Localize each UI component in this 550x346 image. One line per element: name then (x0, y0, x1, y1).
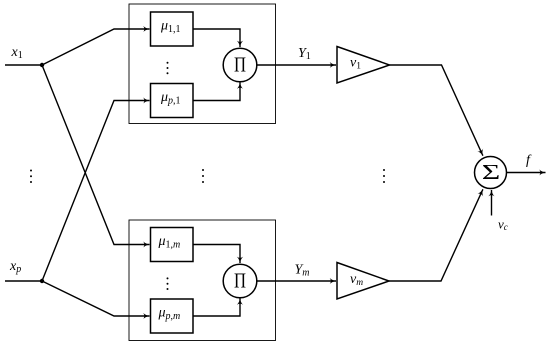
svg-text:Σ: Σ (482, 160, 501, 184)
amplifier vm (337, 263, 389, 300)
product node PI m (223, 264, 257, 298)
svg-text:xp: xp (9, 259, 21, 275)
vdots between rule blocks (202, 169, 204, 183)
svg-text:Π: Π (234, 269, 246, 293)
vdots between amplifiers (383, 169, 385, 183)
wire vm to summation (389, 189, 483, 281)
svg-text:Π: Π (234, 53, 246, 77)
fuzzifier layer box 1 (top rule block) (129, 4, 276, 124)
membership box mu_1,1 (151, 12, 194, 46)
membership box mu_1,m (151, 228, 194, 262)
svg-text:μ1,m: μ1,m (158, 234, 181, 251)
wire x1 to mu_1,m (crossing) (42, 65, 150, 245)
wire mu_1,m to product node m (193, 245, 240, 264)
product node PI 1 (223, 48, 257, 82)
wire v1 to summation (390, 65, 483, 156)
svg-text:Ym: Ym (295, 263, 310, 279)
svg-text:μp,m: μp,m (158, 306, 181, 323)
wire mu_p,1 to product node 1 (193, 83, 240, 101)
svg-text:μ1,1: μ1,1 (160, 19, 181, 36)
vdots inside top block (167, 62, 169, 75)
wire xp to mu_p,m (42, 281, 150, 316)
svg-text:vc: vc (498, 217, 508, 233)
wire vc bias input (491, 190, 493, 216)
svg-text:μp,1: μp,1 (160, 90, 181, 107)
wire x1 to mu_1,1 (42, 29, 150, 65)
vdots inside bottom block (167, 277, 169, 290)
membership box mu_p,1 (151, 84, 194, 118)
summation node SIGMA (475, 157, 507, 189)
wire mu_1,1 to product node 1 (193, 29, 240, 47)
wire Y1 from product 1 to amplifier v1 (257, 64, 336, 66)
wire Ym from product m to amplifier vm (257, 280, 336, 282)
amplifier v1 (337, 47, 390, 84)
wire mu_p,m to product node m (193, 299, 240, 317)
wire output f (507, 172, 546, 174)
node junction x1 (40, 63, 44, 67)
svg-text:vm: vm (350, 272, 363, 288)
wire input x1 (5, 64, 42, 66)
node junction xp (40, 279, 44, 283)
wire input xp (5, 280, 42, 282)
svg-text:v1: v1 (350, 56, 361, 72)
svg-text:f: f (526, 153, 532, 168)
fuzzifier layer box m (bottom rule block) (129, 220, 276, 341)
wire xp to mu_p,1 (crossing) (42, 101, 150, 282)
svg-text:x1: x1 (11, 45, 23, 61)
vdots left inputs (30, 170, 32, 184)
membership box mu_p,m (151, 299, 194, 333)
svg-text:Y1: Y1 (298, 46, 311, 62)
